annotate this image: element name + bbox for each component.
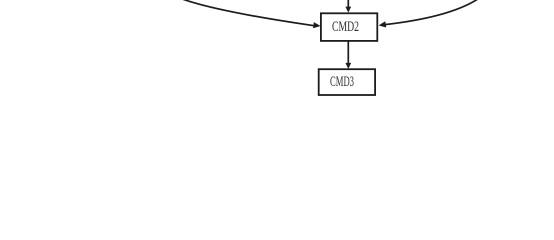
wire: vertical arrow from top into CMD2 [345, 0, 351, 13]
node CMD3 [319, 69, 375, 95]
svg-text:CMD3: CMD3 [330, 74, 354, 90]
wire: vertical arrow from CMD2 to CMD3 [345, 42, 351, 69]
node CMD2 [321, 13, 377, 41]
wire: curved arrow from upper-left into CMD2 left side [180, 0, 321, 28]
svg-text:CMD2: CMD2 [332, 19, 359, 35]
wire: curved arrow from upper-right into CMD2 right side [379, 0, 479, 27]
